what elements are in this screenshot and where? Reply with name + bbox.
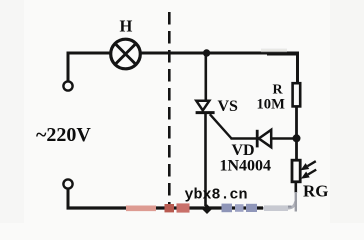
blue overlay mark 2 <box>235 204 244 212</box>
node: R/RG/diode junction <box>293 134 301 142</box>
RG light arrow 2 <box>302 170 316 179</box>
svg-text:1N4004: 1N4004 <box>220 158 272 175</box>
wire top: left terminal to lamp <box>68 52 110 55</box>
thyristor VS cathode wire <box>204 113 207 206</box>
dashed separation line <box>168 12 171 208</box>
svg-text:H: H <box>120 17 133 36</box>
diode VD cathode bar <box>256 130 259 148</box>
node: top junction <box>203 49 210 56</box>
smudge above corner <box>261 49 287 53</box>
wire: left vertical lower <box>67 189 70 210</box>
red overlay mark small <box>165 204 175 212</box>
wire bottom faded right part <box>263 202 296 209</box>
thyristor VS anode wire <box>205 53 208 101</box>
svg-text:R: R <box>273 83 284 98</box>
svg-text:VD: VD <box>232 142 255 159</box>
blue overlay mark 1 <box>222 204 233 213</box>
wire diode to node <box>271 137 297 140</box>
wire top: lamp to right corner <box>141 52 298 55</box>
svg-text:10M: 10M <box>257 97 286 113</box>
terminal upper <box>63 81 72 90</box>
wire corner thick segment <box>267 52 298 55</box>
svg-text:RG: RG <box>303 182 329 201</box>
wire below RG <box>294 182 297 193</box>
wire gate to diode <box>231 137 257 140</box>
photoresistor RG body <box>292 160 300 182</box>
wire right vertical faded bottom <box>295 192 297 212</box>
svg-text:~220V: ~220V <box>36 124 91 146</box>
thyristor VS triangle <box>196 101 209 111</box>
red overlay mark block <box>177 203 190 212</box>
lamp H <box>111 39 141 69</box>
blue overlay mark 3 <box>246 204 257 212</box>
thyristor VS cathode bar <box>196 111 215 114</box>
grey overlay swath <box>264 205 288 211</box>
wire: right vertical top segment <box>296 52 299 85</box>
node: bottom junction <box>202 204 212 214</box>
RG light arrow 1 <box>302 161 316 170</box>
diode VD triangle <box>259 130 271 147</box>
svg-text:ybx8.cn: ybx8.cn <box>185 187 248 204</box>
thyristor VS gate wire diagonal <box>210 114 232 138</box>
svg-text:VS: VS <box>218 98 239 115</box>
wire: left vertical upper <box>67 52 70 82</box>
wire bottom <box>67 206 264 209</box>
red overlay mark left swath <box>126 206 156 212</box>
resistor R body <box>293 83 301 106</box>
terminal lower <box>63 179 72 188</box>
wire: right vertical mid segment <box>295 106 298 160</box>
corner tick <box>286 206 292 208</box>
